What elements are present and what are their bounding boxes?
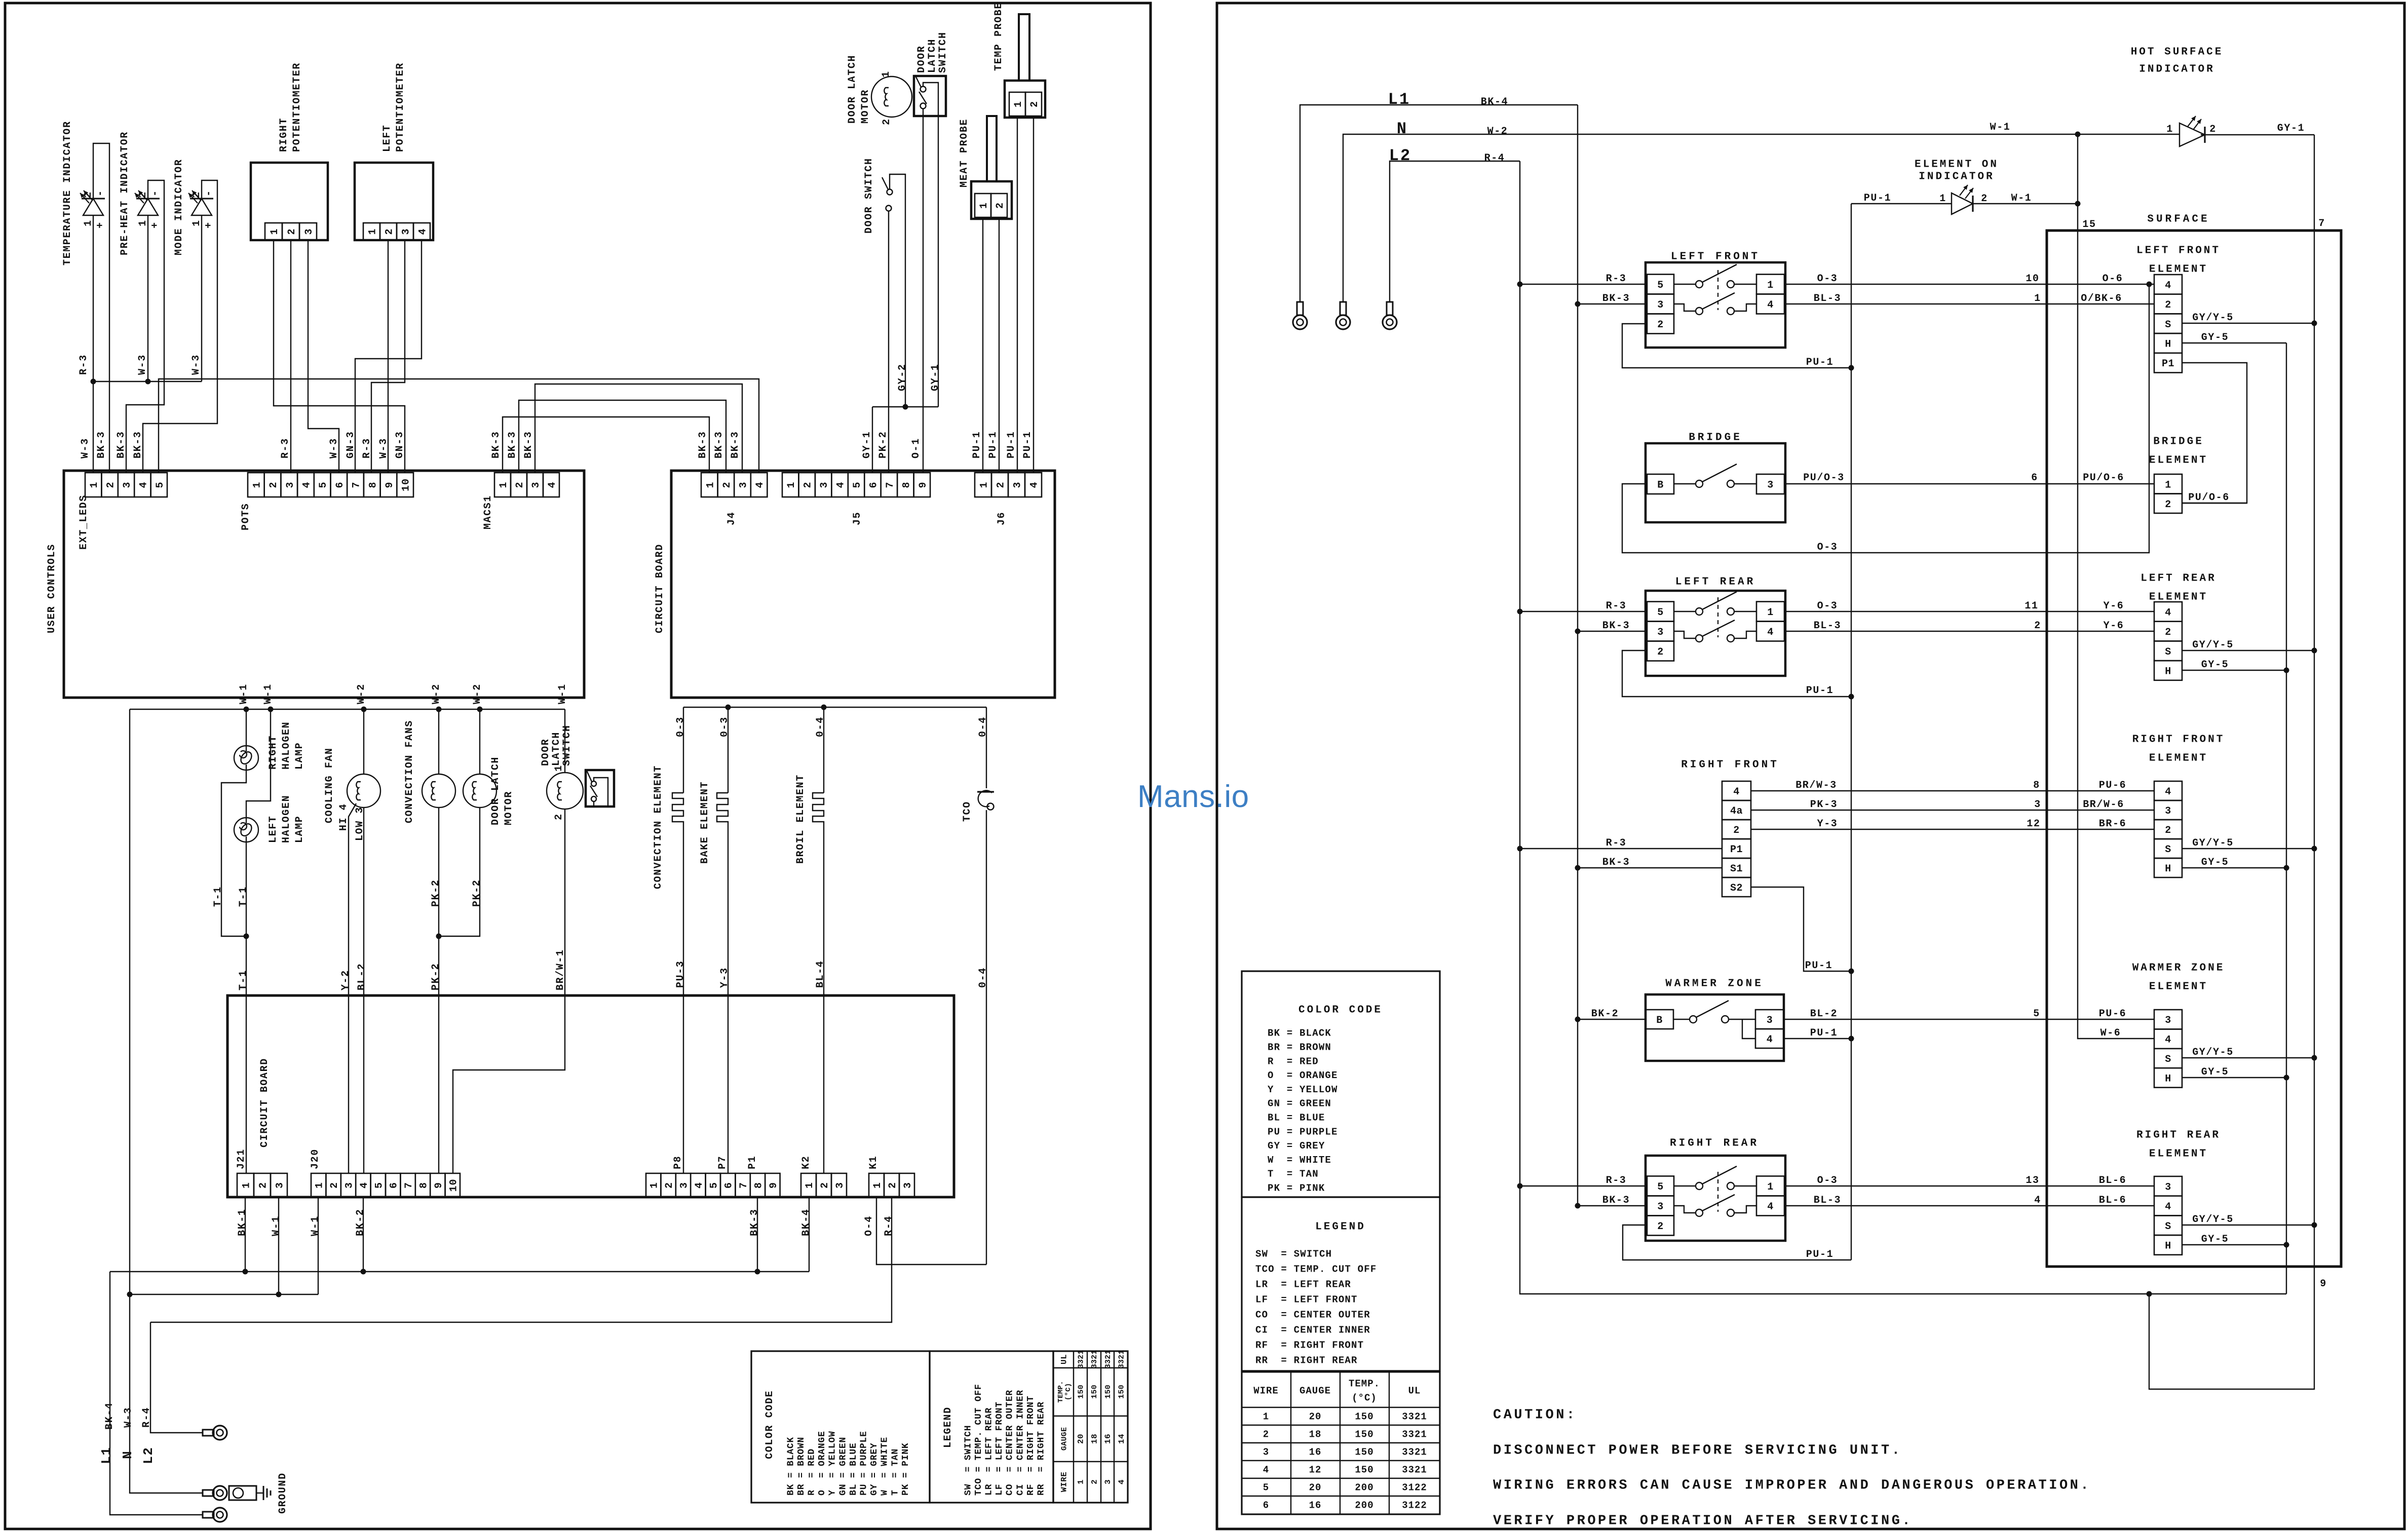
svg-text:1: 1: [137, 219, 149, 226]
svg-text:3321: 3321: [1402, 1429, 1427, 1440]
svg-text:3: 3: [2165, 1181, 2171, 1193]
svg-text:BK-3: BK-3: [1602, 1195, 1630, 1206]
svg-text:Y-2: Y-2: [340, 970, 352, 990]
junction: [1575, 865, 1581, 871]
svg-text:3: 3: [401, 228, 412, 235]
wire O-4 TCO to K1-1: [876, 1197, 986, 1265]
broil element: [823, 707, 824, 793]
svg-text:BK-4: BK-4: [1481, 96, 1508, 108]
svg-text:PU-6: PU-6: [2099, 780, 2126, 791]
N ring lug: [1340, 302, 1346, 315]
svg-text:Y = YELLOW: Y = YELLOW: [828, 1431, 838, 1496]
wire N riser: [130, 709, 203, 1493]
left potentiometer box: [355, 163, 433, 240]
connector warmer element: [2154, 1010, 2182, 1029]
wire table grid p2: [1290, 1372, 1291, 1514]
wire PU/O-6 bridge 2: [2182, 503, 2247, 504]
wire conv fan tops: [438, 709, 439, 774]
svg-text:PU-6: PU-6: [2099, 1008, 2126, 1020]
svg-text:LATCH: LATCH: [551, 732, 562, 766]
svg-text:ELEMENT: ELEMENT: [2149, 981, 2208, 992]
connector J4: [701, 473, 718, 497]
junction: [1517, 1183, 1523, 1189]
svg-text:3321: 3321: [1402, 1465, 1427, 1476]
svg-text:Mans.io: Mans.io: [1137, 779, 1249, 814]
svg-text:12: 12: [2027, 818, 2040, 830]
junction GY-5 taps: [2284, 668, 2289, 673]
svg-text:CAUTION:: CAUTION:: [1493, 1407, 1577, 1423]
ground lug: [203, 1490, 214, 1496]
wire BK bus L1: [110, 1271, 809, 1272]
wire BL-3 LF: [1784, 303, 2154, 304]
svg-text:2: 2: [2034, 620, 2041, 632]
svg-text:O/BK-6: O/BK-6: [2081, 293, 2122, 304]
svg-text:2: 2: [1263, 1429, 1269, 1440]
svg-text:W-3: W-3: [378, 438, 390, 458]
svg-text:POTS: POTS: [240, 503, 252, 530]
svg-text:RF = RIGHT FRONT: RF = RIGHT FRONT: [1255, 1340, 1364, 1351]
svg-text:2: 2: [1090, 1479, 1099, 1484]
svg-text:4: 4: [301, 481, 313, 488]
svg-text:W-3: W-3: [328, 438, 340, 458]
svg-text:2: 2: [881, 118, 893, 125]
connector J20: [311, 1173, 326, 1197]
svg-text:Y-3: Y-3: [719, 967, 731, 988]
svg-text:W-1: W-1: [238, 683, 250, 704]
left halogen lamp: [234, 818, 258, 842]
wire LR-2 PU-1 hook: [1622, 650, 1851, 697]
svg-text:J4: J4: [726, 512, 738, 525]
svg-text:(°C): (°C): [1064, 1383, 1073, 1401]
TCO thermal cutoff: [986, 707, 987, 788]
connector right front element: [2154, 781, 2182, 800]
svg-text:3: 3: [122, 481, 133, 488]
wire P1 to bridge element: [2182, 363, 2247, 503]
wire BL-3 LR: [1784, 631, 2154, 632]
svg-text:150: 150: [1355, 1429, 1373, 1440]
wire table grid: [1073, 1351, 1074, 1503]
svg-text:BK-3: BK-3: [523, 431, 534, 458]
junction: [1575, 629, 1581, 634]
svg-text:6: 6: [2031, 472, 2038, 484]
svg-text:6: 6: [1263, 1500, 1269, 1511]
svg-text:LEFT FRONT: LEFT FRONT: [1671, 251, 1760, 262]
svg-text:W-3: W-3: [80, 438, 91, 458]
svg-text:BL-2: BL-2: [356, 963, 368, 990]
svg-text:GY/Y-5: GY/Y-5: [2192, 312, 2234, 324]
door switch: [887, 189, 893, 195]
svg-text:8: 8: [2033, 780, 2040, 791]
svg-text:MOTOR: MOTOR: [860, 89, 871, 124]
convection element: [683, 707, 684, 793]
wire R-3 bus: [1520, 161, 2286, 1294]
svg-text:CONVECTION ELEMENT: CONVECTION ELEMENT: [653, 765, 664, 889]
svg-text:W-2: W-2: [472, 683, 483, 704]
svg-text:BR/W-1: BR/W-1: [555, 949, 566, 990]
svg-text:TEMP PROBE: TEMP PROBE: [993, 2, 1005, 71]
svg-text:POTENTIOMETER: POTENTIOMETER: [291, 62, 303, 152]
junction: [1575, 1203, 1581, 1209]
wire W-1 LED cathode: [1973, 203, 2078, 204]
svg-text:20: 20: [1077, 1434, 1086, 1444]
svg-text:1: 1: [498, 481, 510, 488]
svg-text:BR/W-6: BR/W-6: [2083, 799, 2124, 811]
connector J6: [975, 473, 991, 497]
connector right rear element: [2154, 1176, 2182, 1196]
svg-text:4: 4: [138, 481, 149, 488]
svg-text:2: 2: [1657, 1221, 1664, 1233]
svg-text:2: 2: [819, 1182, 831, 1189]
svg-text:WARMER ZONE: WARMER ZONE: [2132, 962, 2225, 974]
legend box p2: [1242, 1197, 1440, 1371]
L1 ring lug: [1297, 302, 1303, 315]
svg-text:S: S: [2165, 1054, 2171, 1065]
svg-text:2: 2: [2209, 124, 2216, 135]
svg-text:TCO = TEMP. CUT OFF: TCO = TEMP. CUT OFF: [1255, 1264, 1377, 1275]
svg-text:1: 1: [1767, 1181, 1774, 1193]
svg-text:4: 4: [417, 228, 429, 235]
legend box: [930, 1351, 1053, 1503]
svg-text:5: 5: [155, 481, 166, 488]
svg-text:3: 3: [2165, 1015, 2171, 1026]
wire W bus: [130, 709, 565, 710]
svg-text:1: 1: [367, 228, 379, 235]
svg-text:8: 8: [367, 481, 379, 488]
svg-text:BRIDGE: BRIDGE: [1689, 432, 1742, 443]
svg-text:LATCH: LATCH: [927, 39, 938, 73]
svg-text:1: 1: [2166, 124, 2173, 135]
svg-text:MACS1: MACS1: [482, 495, 494, 529]
svg-text:O-3: O-3: [1817, 600, 1838, 612]
junction BK bus: [243, 1269, 248, 1275]
svg-text:8: 8: [901, 481, 912, 488]
svg-text:5: 5: [1657, 607, 1664, 619]
wire GY-5 RF: [2182, 867, 2286, 868]
svg-text:CIRCUIT BOARD: CIRCUIT BOARD: [654, 544, 666, 633]
svg-text:SWITCH: SWITCH: [561, 724, 573, 766]
svg-text:1: 1: [1767, 607, 1774, 619]
svg-text:PK-3: PK-3: [1810, 799, 1838, 811]
svg-text:4: 4: [359, 1182, 370, 1189]
junction: [1849, 694, 1854, 700]
door latch switch 2 box: [586, 770, 614, 807]
svg-text:BR/W-3: BR/W-3: [1795, 780, 1837, 791]
right potentiometer box: [251, 163, 328, 240]
junction T-1: [244, 934, 249, 939]
wire RP3 W-3 to POTS-6: [308, 240, 339, 473]
wire BK-4 K2-1: [809, 1197, 810, 1272]
L1 ring lug: [203, 1512, 214, 1518]
svg-text:LAMP: LAMP: [294, 816, 305, 843]
svg-text:3321: 3321: [1118, 1350, 1126, 1369]
svg-text:150: 150: [1355, 1465, 1373, 1476]
svg-text:3122: 3122: [1402, 1500, 1427, 1511]
wire GY/Y-5 RF: [2182, 848, 2314, 849]
svg-text:S1: S1: [1730, 863, 1743, 875]
svg-text:1: 1: [705, 481, 716, 488]
svg-text:CONVECTION FANS: CONVECTION FANS: [404, 720, 415, 823]
svg-text:W-6: W-6: [2100, 1027, 2121, 1039]
wire BK-3 to RR-3: [1578, 1205, 1647, 1206]
user controls box: [64, 471, 584, 698]
svg-text:+: +: [95, 221, 106, 228]
svg-text:BK-3: BK-3: [1602, 620, 1630, 632]
wire R-3 to RF P1: [1520, 848, 1722, 849]
svg-text:5: 5: [318, 481, 329, 488]
svg-text:BL = BLUE: BL = BLUE: [849, 1443, 859, 1496]
svg-text:SW = SWITCH: SW = SWITCH: [1255, 1249, 1332, 1260]
svg-text:LAMP: LAMP: [294, 742, 305, 770]
svg-text:1: 1: [1767, 280, 1774, 291]
svg-text:16: 16: [1309, 1447, 1322, 1458]
svg-text:2: 2: [995, 202, 1006, 209]
svg-text:GY-5: GY-5: [2201, 332, 2229, 343]
svg-text:150: 150: [1104, 1385, 1113, 1399]
junction: [2312, 846, 2317, 852]
svg-text:B: B: [1657, 480, 1664, 491]
wire cooling fan HI Y-2 to J20-3: [349, 803, 356, 1173]
connector MACS1: [494, 473, 511, 497]
svg-text:3321: 3321: [1090, 1350, 1099, 1369]
svg-text:2: 2: [286, 228, 298, 235]
svg-text:150: 150: [1355, 1411, 1373, 1423]
wire BK-3 P1-8: [757, 1197, 758, 1272]
svg-text:ELEMENT: ELEMENT: [2149, 1148, 2208, 1160]
svg-text:GAUGE: GAUGE: [1299, 1386, 1331, 1397]
wire RP2 R-3 to POTS-3: [290, 240, 291, 473]
svg-text:K2: K2: [800, 1156, 812, 1169]
switch left front: [1646, 262, 1785, 348]
door latch switch box: [914, 76, 946, 116]
wire BK-1 J21-1: [245, 1197, 246, 1272]
svg-text:R = RED: R = RED: [1268, 1056, 1319, 1067]
svg-text:RR = RIGHT REAR: RR = RIGHT REAR: [1255, 1355, 1358, 1366]
svg-text:2: 2: [2165, 825, 2171, 836]
svg-text:W-3: W-3: [123, 1407, 134, 1428]
svg-text:HI 4: HI 4: [338, 803, 350, 831]
svg-text:GN-3: GN-3: [394, 431, 406, 458]
svg-text:WIRE: WIRE: [1060, 1472, 1069, 1492]
svg-text:1: 1: [1263, 1411, 1269, 1423]
svg-text:W-2: W-2: [1487, 126, 1508, 137]
svg-text:P8: P8: [672, 1156, 684, 1169]
svg-text:200: 200: [1355, 1500, 1373, 1511]
svg-text:+: +: [149, 221, 161, 228]
left potentiometer pins: [363, 223, 380, 240]
wire W-1 J20-1: [318, 1197, 319, 1294]
svg-text:BK-3: BK-3: [697, 431, 709, 458]
svg-text:L1: L1: [1388, 90, 1410, 109]
svg-text:3: 3: [1657, 299, 1664, 311]
svg-text:GY-5: GY-5: [2201, 1066, 2229, 1078]
svg-text:1: 1: [979, 481, 990, 488]
svg-text:GY-1: GY-1: [930, 364, 941, 391]
svg-text:GN = GREEN: GN = GREEN: [838, 1437, 848, 1496]
svg-text:LEFT: LEFT: [267, 816, 279, 843]
svg-text:3: 3: [275, 1182, 286, 1189]
wire GY-1 latch switch: [938, 116, 939, 407]
page 2 border frame: [1217, 3, 2404, 1529]
svg-text:PRE-HEAT INDICATOR: PRE-HEAT INDICATOR: [119, 131, 131, 255]
svg-text:O-3: O-3: [1817, 542, 1838, 553]
door latch motor 2: [547, 773, 583, 809]
svg-text:2: 2: [1657, 319, 1664, 331]
wire PU-1 bus: [1851, 204, 1852, 1260]
svg-text:1: 1: [2165, 479, 2171, 491]
svg-text:T-1: T-1: [212, 886, 224, 907]
svg-text:2: 2: [268, 481, 280, 488]
svg-text:RIGHT FRONT: RIGHT FRONT: [2132, 734, 2225, 745]
svg-text:3: 3: [1657, 1201, 1664, 1213]
svg-text:1: 1: [2034, 293, 2041, 304]
svg-text:4: 4: [1767, 1034, 1773, 1046]
svg-text:4: 4: [835, 481, 847, 488]
svg-text:2: 2: [105, 481, 117, 488]
wire conv fan 2 bottom: [439, 808, 480, 936]
LED element on indicator: [1952, 193, 1973, 214]
svg-text:1: 1: [83, 219, 94, 226]
svg-text:1: 1: [89, 481, 100, 488]
bake element: [728, 707, 729, 793]
svg-text:TCO: TCO: [962, 801, 973, 822]
svg-text:2: 2: [996, 481, 1007, 488]
svg-text:TEMPERATURE INDICATOR: TEMPERATURE INDICATOR: [62, 121, 73, 265]
wire meat probe 1 to J6-1: [982, 219, 983, 473]
svg-text:BR-6: BR-6: [2099, 818, 2126, 830]
svg-text:16: 16: [1309, 1500, 1322, 1511]
switch left rear: [1646, 591, 1785, 676]
svg-text:200: 200: [1355, 1482, 1373, 1493]
svg-text:1: 1: [191, 219, 203, 226]
wire GY-1 cross link: [872, 406, 938, 407]
svg-text:BK-2: BK-2: [1591, 1008, 1619, 1020]
right halogen lamp: [234, 746, 258, 770]
connector K1: [869, 1173, 884, 1197]
svg-text:N: N: [120, 1450, 135, 1459]
svg-text:PU = PURPLE: PU = PURPLE: [1268, 1126, 1338, 1137]
wire table box p2: [1242, 1372, 1440, 1514]
svg-text:8: 8: [418, 1182, 430, 1189]
svg-text:1: 1: [241, 1182, 253, 1189]
svg-text:4: 4: [2165, 1201, 2171, 1213]
wire L1 riser: [110, 1272, 203, 1515]
svg-text:GN-3: GN-3: [345, 431, 357, 458]
svg-text:2: 2: [1981, 193, 1988, 205]
svg-text:P1: P1: [747, 1156, 758, 1169]
junction PK-2: [436, 934, 442, 939]
wire L1 BK-4 feed: [1300, 105, 1578, 302]
svg-text:20: 20: [1309, 1411, 1322, 1423]
wire GY-5 LF: [2182, 342, 2286, 343]
svg-text:PU/O-3: PU/O-3: [1803, 472, 1845, 484]
wire GY/Y-5 WZ: [2182, 1057, 2314, 1058]
junction W-1 on N line: [2075, 132, 2081, 137]
svg-text:PU-1: PU-1: [1806, 357, 1833, 368]
wire left lamp top W-1: [246, 709, 271, 818]
svg-text:W-3: W-3: [190, 354, 202, 375]
svg-text:DOOR: DOOR: [916, 46, 928, 73]
svg-text:PK = PINK: PK = PINK: [901, 1443, 911, 1496]
svg-text:GY-5: GY-5: [2201, 1234, 2229, 1245]
bridge contacts: [1696, 480, 1703, 487]
door latch switch 2 contacts: [591, 781, 596, 786]
connector POTS: [248, 473, 264, 497]
svg-text:3321: 3321: [1402, 1447, 1427, 1458]
svg-text:4: 4: [2034, 1195, 2041, 1206]
wire GY/Y-5 bus wire 9: [2149, 135, 2314, 1389]
wire GY-5 WZ: [2182, 1077, 2286, 1078]
svg-text:5: 5: [708, 1182, 720, 1189]
LED mode indicator: [192, 199, 212, 215]
wire BK-3 to RF S1: [1578, 867, 1722, 868]
svg-text:ELEMENT: ELEMENT: [2149, 263, 2208, 275]
svg-text:14: 14: [1117, 1434, 1126, 1444]
svg-text:HALOGEN: HALOGEN: [281, 795, 292, 843]
svg-text:1: 1: [251, 481, 263, 488]
svg-text:PU-1: PU-1: [1022, 431, 1034, 458]
svg-text:O = ORANGE: O = ORANGE: [1268, 1070, 1338, 1081]
connector K2: [801, 1173, 816, 1197]
wire LED2 cathode to EXT_LEDS-3: [126, 180, 164, 473]
svg-text:1: 1: [314, 1182, 326, 1189]
svg-text:1: 1: [804, 1182, 816, 1189]
svg-text:BK-3: BK-3: [749, 1209, 760, 1236]
svg-text:9: 9: [433, 1182, 445, 1189]
wire GY/Y-5 RR: [2182, 1224, 2314, 1225]
svg-text:MOTOR: MOTOR: [503, 791, 515, 825]
wire BR/W-3: [1751, 790, 2154, 791]
svg-text:7: 7: [885, 481, 896, 488]
svg-text:T-1: T-1: [238, 970, 249, 990]
svg-text:PU-1: PU-1: [1006, 431, 1017, 458]
svg-text:LOW 3: LOW 3: [354, 807, 366, 841]
svg-text:5: 5: [2033, 1008, 2040, 1020]
svg-text:S: S: [2165, 319, 2171, 331]
svg-text:BK-3: BK-3: [490, 431, 502, 458]
wire right lamp T-1: [221, 770, 246, 936]
junction: [1575, 301, 1581, 307]
svg-text:5: 5: [1657, 280, 1664, 291]
svg-text:2: 2: [83, 191, 94, 198]
wire RP1 GN-3 to POTS-10: [274, 240, 405, 473]
svg-text:3321: 3321: [1077, 1350, 1085, 1369]
connector bridge element: [2154, 474, 2182, 494]
junction: [2312, 1222, 2317, 1228]
svg-text:2: 2: [721, 481, 733, 488]
svg-text:W-2: W-2: [356, 683, 367, 704]
wire W bus bottom: [129, 1294, 318, 1295]
svg-text:VERIFY PROPER OPERATION AFTER: VERIFY PROPER OPERATION AFTER SERVICING.: [1493, 1513, 1913, 1528]
svg-text:PU/O-6: PU/O-6: [2083, 472, 2124, 484]
svg-text:4: 4: [694, 1182, 705, 1189]
wire LP3 R-3 to POTS-8: [371, 240, 405, 473]
wire GY-5 RR: [2182, 1244, 2286, 1245]
svg-text:T = TAN: T = TAN: [1268, 1169, 1319, 1180]
svg-text:RIGHT: RIGHT: [278, 118, 290, 152]
svg-text:4: 4: [1733, 786, 1740, 798]
svg-text:RIGHT REAR: RIGHT REAR: [2136, 1129, 2221, 1141]
svg-text:CI = CENTER INNER: CI = CENTER INNER: [1255, 1325, 1370, 1336]
svg-text:3: 3: [303, 228, 315, 235]
svg-text:COLOR CODE: COLOR CODE: [764, 1390, 776, 1459]
svg-text:150: 150: [1090, 1385, 1099, 1399]
svg-text:MODE INDICATOR: MODE INDICATOR: [173, 159, 185, 255]
svg-text:PU = PURPLE: PU = PURPLE: [859, 1431, 869, 1496]
svg-text:GY/Y-5: GY/Y-5: [2192, 837, 2234, 849]
svg-text:2: 2: [1657, 646, 1664, 658]
svg-text:GY = GREY: GY = GREY: [869, 1443, 880, 1496]
connector EXT_LEDS: [85, 473, 101, 497]
